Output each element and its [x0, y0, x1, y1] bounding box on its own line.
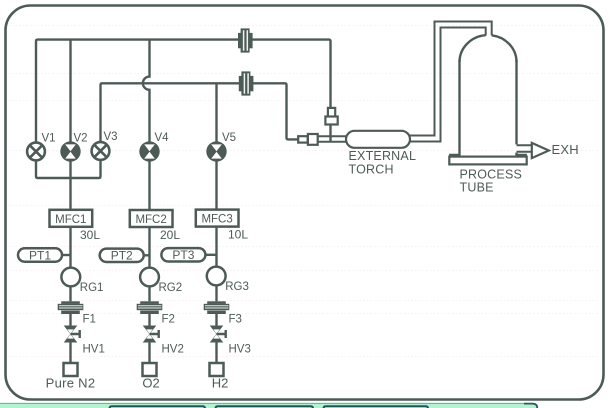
svg-text:PT3: PT3 — [172, 248, 194, 262]
PT3 — [161, 248, 205, 262]
regulator RG3 — [207, 267, 226, 286]
pipe torch to process tube (inner wall) — [410, 28, 486, 142]
svg-text:EXTERNAL: EXTERNAL — [349, 149, 417, 163]
MFC2 — [130, 210, 173, 227]
svg-text:V2: V2 — [74, 133, 88, 145]
button top edges (cut off at bottom) — [110, 406, 429, 408]
svg-text:V3: V3 — [104, 131, 118, 143]
svg-text:V1: V1 — [42, 133, 56, 145]
hand valve HV1 — [64, 326, 80, 343]
wire valve outlet bus V1-V2-V3 — [36, 161, 101, 179]
external torch body — [346, 131, 410, 148]
wire RG1 to F1 — [69, 286, 71, 301]
svg-text:MFC3: MFC3 — [201, 214, 232, 226]
regulator RG1 — [61, 268, 80, 287]
process tube right wall upper — [515, 60, 517, 144]
wire HV3 to H2 source — [215, 342, 217, 363]
wire channel-3 V5 to MFC3 — [215, 161, 217, 210]
valve V4 (closed) — [139, 141, 159, 161]
process tube base flange — [449, 157, 526, 165]
PT1 — [18, 248, 62, 262]
exhaust pipe — [517, 145, 532, 152]
svg-text:O2: O2 — [142, 376, 159, 391]
wire channel-2 V4 to MFC2 — [148, 161, 150, 210]
svg-text:F2: F2 — [162, 314, 175, 326]
wire RG2 to F2 — [148, 286, 150, 301]
wire V2 drop from top manifold — [69, 40, 71, 142]
svg-text:MFC1: MFC1 — [55, 214, 86, 226]
source O2 port — [143, 363, 157, 376]
process tube left wall — [450, 60, 459, 157]
wire RG3 to F3 — [215, 285, 217, 301]
svg-text:30L: 30L — [80, 228, 100, 242]
svg-text:H2: H2 — [212, 376, 229, 391]
exhaust arrow head — [532, 143, 549, 158]
MFC3 — [196, 210, 239, 227]
svg-text:RG1: RG1 — [80, 282, 104, 294]
svg-text:F3: F3 — [229, 314, 242, 326]
hand valve HV3 — [210, 326, 226, 343]
wire second manifold with V3 drop and torch inlet drop — [101, 83, 299, 142]
wire F3 to HV3 — [215, 314, 217, 326]
pipe torch to process tube (outer wall) — [410, 22, 492, 136]
svg-text:PROCESS: PROCESS — [460, 168, 523, 182]
filter F3 — [204, 301, 230, 314]
source N2 port — [64, 363, 78, 376]
wire F2 to HV2 — [148, 314, 150, 326]
wire PT2 stub — [144, 254, 150, 256]
torch inlet fitting (small nut) — [298, 136, 308, 142]
valve V3 — [92, 142, 110, 160]
label EXTERNAL TORCH — [349, 149, 417, 177]
gas filter GF1 (top manifold) — [238, 28, 253, 52]
valve V5 (closed) — [206, 141, 226, 161]
valve V2 (closed) — [60, 141, 80, 161]
wire HV1 to N2 source — [69, 342, 71, 363]
wire V5 drop — [215, 83, 217, 142]
bottom panel strip — [0, 403, 537, 408]
label PROCESS TUBE — [460, 168, 523, 195]
process tube dome — [460, 35, 517, 62]
svg-text:HV3: HV3 — [229, 344, 251, 356]
svg-text:Pure N2: Pure N2 — [46, 376, 96, 391]
wire PT3 stub — [205, 254, 216, 256]
svg-text:20L: 20L — [160, 228, 180, 242]
svg-text:HV2: HV2 — [162, 344, 184, 356]
regulator RG2 — [140, 268, 159, 287]
svg-text:PT2: PT2 — [111, 249, 133, 263]
filter F1 — [58, 301, 84, 314]
igniter fitting (small nut) — [328, 108, 335, 117]
svg-text:EXH: EXH — [552, 142, 579, 157]
hand valve HV2 — [143, 326, 159, 343]
svg-text:RG3: RG3 — [225, 281, 249, 293]
process tube right wall lower — [517, 153, 526, 157]
igniter fitting (large nut) — [325, 117, 337, 125]
PT2 — [100, 249, 144, 263]
wire PT1 stub — [62, 254, 71, 256]
svg-text:10L: 10L — [228, 228, 248, 242]
wire HV2 to O2 source — [148, 342, 150, 363]
svg-text:F1: F1 — [83, 314, 96, 326]
faint grid rows (decorative) — [8, 26, 600, 357]
valve V1 — [27, 143, 45, 161]
wire F1 to HV1 — [69, 314, 71, 326]
wire channel-1 V2 to MFC1 — [69, 161, 71, 210]
svg-text:MFC2: MFC2 — [135, 214, 166, 226]
wire channel-1 MFC1 to RG1 — [69, 227, 71, 268]
svg-text:RG2: RG2 — [159, 282, 183, 294]
pipe fitting to torch (double wall) — [318, 136, 348, 141]
svg-text:V5: V5 — [222, 132, 236, 144]
svg-text:HV1: HV1 — [83, 344, 105, 356]
svg-text:V4: V4 — [155, 132, 170, 144]
svg-text:TORCH: TORCH — [349, 163, 394, 177]
svg-text:PT1: PT1 — [29, 248, 51, 262]
wire channel-2 drop with hop over second manifold — [143, 40, 150, 142]
svg-text:TUBE: TUBE — [460, 181, 494, 195]
wire channel-3 MFC3 to RG3 — [215, 227, 217, 267]
torch inlet fitting (large nut) — [308, 134, 318, 145]
wire channel-2 MFC2 to RG2 — [148, 227, 150, 268]
source H2 port — [210, 363, 224, 376]
filter F2 — [137, 301, 163, 314]
MFC1 — [50, 210, 93, 227]
gas filter GF2 (second manifold) — [239, 71, 254, 95]
wire igniter to torch inlet pipe — [329, 125, 331, 142]
wire top manifold with V1 drop and torch riser — [36, 40, 331, 142]
